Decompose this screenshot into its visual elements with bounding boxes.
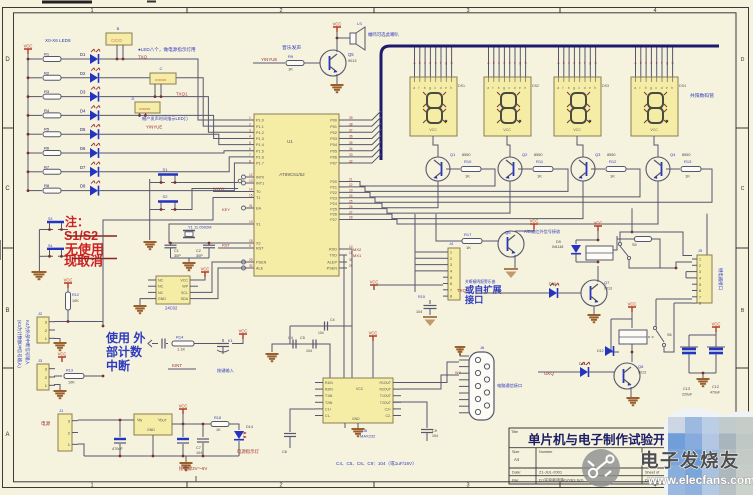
svg-text:h: h	[594, 86, 596, 90]
wire P0.0 bus entry	[347, 111, 381, 120]
svg-text:中断: 中断	[106, 358, 130, 373]
svg-text:C5: C5	[300, 336, 305, 340]
base resistor R11	[533, 167, 553, 172]
svg-text:1: 1	[90, 8, 93, 14]
svg-text:P1.6: P1.6	[256, 156, 264, 160]
svg-text:VCC: VCC	[712, 322, 721, 327]
resistor R1	[43, 57, 61, 62]
svg-text:D: D	[5, 57, 10, 63]
svg-text:电脑通信接口: 电脑通信接口	[497, 382, 522, 389]
svg-text:VCC: VCC	[370, 280, 379, 285]
svg-text:IN4148: IN4148	[552, 245, 563, 249]
svg-text:▭▭▭: ▭▭▭	[111, 38, 123, 43]
svg-text:D6: D6	[80, 146, 86, 151]
svg-text:6: 6	[699, 289, 701, 293]
capacitor K0 polarized	[161, 339, 163, 349]
buzzer box B2	[150, 73, 176, 84]
wire power bottom rail	[84, 455, 239, 457]
wire D11 to Q8 base	[590, 371, 615, 373]
wire R8 to D8	[61, 190, 90, 192]
svg-text:SCL: SCL	[181, 291, 188, 295]
7-seg display DS1	[410, 77, 457, 136]
wire J2 pin1	[54, 322, 103, 327]
svg-text:TXQ: TXQ	[138, 55, 148, 60]
svg-text:f: f	[440, 61, 441, 65]
wire J3 pin2 res	[54, 375, 62, 377]
vcc Q6	[530, 224, 538, 229]
svg-text:KINT: KINT	[172, 363, 182, 368]
svg-text:P02: P02	[330, 131, 337, 135]
svg-text:R4: R4	[44, 108, 50, 113]
svg-text:7: 7	[450, 288, 452, 292]
ground caps right	[697, 378, 710, 380]
capacitor C4	[292, 340, 294, 349]
wire R9 to Q5 base	[304, 62, 320, 64]
svg-text:19: 19	[249, 220, 253, 224]
wire Q7 emitter	[593, 306, 595, 314]
svg-text:TXD: TXD	[329, 254, 337, 258]
svg-text:Q7: Q7	[604, 280, 610, 285]
svg-text:R2IN: R2IN	[325, 388, 333, 392]
wire staircase to R17	[436, 214, 462, 241]
connector J2	[37, 317, 49, 343]
wire Q4 base to resistor	[666, 168, 680, 170]
header J4	[448, 248, 460, 300]
wire relay2 switch down	[664, 347, 665, 352]
svg-text:P1.2: P1.2	[256, 131, 264, 135]
svg-text:MX2: MX2	[353, 247, 362, 252]
svg-text:P1.3: P1.3	[256, 137, 264, 141]
wire P2.3 to Q4 base resistor	[347, 169, 712, 202]
ground under Q7	[588, 314, 601, 316]
svg-text:9013: 9013	[348, 59, 356, 63]
base resistor R12	[606, 167, 626, 172]
wire K0 to R14	[166, 343, 168, 345]
ground under Q6	[504, 268, 518, 270]
svg-text:c: c	[424, 61, 426, 65]
svg-text:RST: RST	[256, 247, 264, 251]
capacitor C9	[393, 402, 427, 428]
svg-text:P07: P07	[330, 162, 337, 166]
svg-text:b: b	[640, 61, 642, 65]
svg-text:R8: R8	[44, 183, 50, 188]
svg-text:S6: S6	[667, 333, 672, 337]
svg-text:R12: R12	[72, 293, 79, 297]
wire S2 to INT1	[183, 189, 238, 210]
svg-text:24C02: 24C02	[165, 306, 178, 311]
svg-text:WWW: WWW	[213, 186, 225, 191]
svg-text:VCC: VCC	[429, 128, 437, 132]
svg-text:U1: U1	[287, 139, 293, 144]
svg-text:D8: D8	[80, 184, 86, 189]
svg-text:R12: R12	[609, 159, 617, 164]
resistor R6	[43, 151, 61, 156]
transistor Q5	[320, 50, 346, 76]
vcc J3	[58, 357, 66, 362]
svg-text:30P: 30P	[174, 254, 181, 258]
svg-text:470uF: 470uF	[112, 447, 123, 451]
svg-text:Q4: Q4	[670, 152, 676, 157]
svg-text:13: 13	[249, 179, 253, 183]
svg-text:R17: R17	[464, 232, 472, 237]
svg-text:D9: D9	[556, 240, 561, 244]
wire B1 leads	[116, 45, 118, 59]
wire J1 pin3 down	[78, 444, 84, 456]
svg-text:3: 3	[466, 8, 469, 14]
svg-text:104: 104	[306, 349, 312, 353]
svg-text:(K3为计数脉冲信号输入): (K3为计数脉冲信号输入)	[16, 320, 23, 368]
LED D2	[90, 73, 98, 83]
wire stair to J5 pin1	[692, 214, 707, 259]
capacitor C6	[290, 409, 315, 432]
svg-text:e: e	[435, 61, 437, 65]
svg-text:D5: D5	[80, 127, 86, 132]
resistor R17	[462, 239, 482, 244]
svg-text:C1+: C1+	[325, 407, 331, 411]
svg-text:DS4: DS4	[679, 84, 686, 88]
wire Q1 base to resistor	[446, 168, 460, 170]
svg-text:A: A	[5, 432, 9, 438]
wire VCC to resistor R7	[28, 171, 42, 173]
svg-text:8550: 8550	[607, 153, 615, 157]
svg-text:8: 8	[249, 159, 251, 163]
svg-text:g: g	[429, 86, 431, 90]
svg-text:4: 4	[450, 270, 452, 274]
svg-text:YINYUE: YINYUE	[146, 125, 162, 130]
svg-text:Number: Number	[539, 450, 553, 454]
svg-text:g: g	[573, 86, 575, 90]
svg-text:1K: 1K	[216, 428, 221, 432]
svg-text:T2IN: T2IN	[325, 401, 333, 405]
wire R2 to D2	[61, 77, 90, 79]
svg-text:A4: A4	[514, 457, 520, 462]
svg-text:e: e	[656, 61, 658, 65]
svg-text:VCC: VCC	[356, 387, 364, 391]
svg-text:EA: EA	[256, 207, 262, 211]
svg-text:DS1: DS1	[458, 84, 465, 88]
transistor Q1	[426, 157, 450, 181]
ground under S3 S4	[32, 271, 47, 273]
wire D6 to MCU pin P1.5	[100, 151, 247, 153]
transistor Q4	[646, 157, 670, 181]
wire 7805 gnd stub	[152, 435, 154, 456]
wire caps to ground	[171, 257, 210, 259]
wire Q4 emitter return	[347, 181, 658, 224]
ground under crystal caps	[183, 262, 196, 264]
svg-text:c: c	[645, 61, 647, 65]
vcc MAX232	[369, 336, 377, 341]
relay2 dashes	[648, 336, 654, 338]
resistor R4	[43, 113, 61, 118]
svg-text:104: 104	[416, 310, 422, 314]
svg-text:File:: File:	[512, 479, 519, 483]
transistor Q3	[571, 157, 595, 181]
svg-text:RXD: RXD	[329, 248, 337, 252]
wire P0.5 bus entry	[347, 142, 381, 151]
svg-text:音乐发声: 音乐发声	[282, 44, 301, 51]
capacitor C4b	[324, 322, 326, 331]
svg-text:蟺鸣可选此喇叭: 蟺鸣可选此喇叭	[368, 31, 399, 38]
wire VCC rail vertical	[27, 54, 29, 191]
wire VCC to resistor R4	[28, 114, 42, 116]
LED D4	[90, 110, 98, 120]
wire P0.1 bus entry	[347, 117, 381, 126]
vcc for speaker	[333, 27, 341, 32]
wire R17 to Q6 base	[482, 240, 498, 242]
svg-text:T1OUT: T1OUT	[380, 394, 391, 398]
svg-text:DS3: DS3	[602, 84, 609, 88]
ground DB9	[460, 348, 469, 356]
wire SCL SDA up	[198, 262, 246, 292]
svg-text:e: e	[579, 61, 581, 65]
svg-text:R10: R10	[464, 159, 472, 164]
svg-text:NC: NC	[158, 291, 164, 295]
svg-text:VCC: VCC	[333, 22, 342, 27]
svg-text:使用 外: 使用 外	[105, 330, 145, 345]
svg-text:15: 15	[249, 194, 253, 198]
LED D1	[90, 54, 98, 64]
svg-text:b: b	[645, 86, 647, 90]
svg-text:9013: 9013	[604, 287, 612, 291]
svg-text:1K: 1K	[685, 174, 690, 179]
svg-text:30P: 30P	[196, 254, 203, 258]
svg-text:C4、C5、C6、C9：104（或1uF/16V）: C4、C5、C6、C9：104（或1uF/16V）	[336, 460, 417, 466]
svg-text:www.elecfans.com: www.elecfans.com	[647, 473, 753, 487]
svg-text:现取消: 现取消	[64, 254, 103, 269]
svg-text:D: D	[741, 57, 745, 63]
svg-text:3: 3	[466, 483, 469, 489]
svg-text:a: a	[557, 86, 559, 90]
svg-text:D4: D4	[80, 108, 86, 113]
svg-text:R13: R13	[66, 369, 73, 373]
wire J5 bottom drops	[655, 299, 657, 327]
ground under J3	[54, 390, 67, 392]
svg-text:e: e	[589, 86, 591, 90]
capacitor C13 electrolytic	[682, 348, 696, 351]
wire Q5 emitter	[336, 74, 338, 84]
svg-text:14: 14	[249, 188, 253, 192]
LED D11	[580, 367, 588, 377]
svg-text:d: d	[514, 86, 516, 90]
wire D3 to MCU pin P1.2	[100, 97, 247, 133]
svg-text:10K: 10K	[72, 299, 79, 303]
svg-text:C4: C4	[330, 318, 335, 322]
border row ticks	[3, 128, 750, 368]
svg-text:g: g	[589, 61, 591, 65]
svg-text:VCC: VCC	[201, 267, 210, 272]
vcc 24C02	[201, 272, 209, 277]
DB9 connector J6	[469, 352, 494, 420]
svg-text:1: 1	[450, 251, 452, 255]
resistor R9	[286, 61, 304, 66]
svg-text:P1.0: P1.0	[256, 119, 264, 123]
svg-text:9: 9	[249, 244, 251, 248]
wire DS1 to Q1 collector	[433, 136, 438, 157]
wire caps bottom rail	[689, 372, 716, 374]
resistor R3	[43, 94, 61, 99]
wire VCC to resistor R6	[28, 152, 42, 154]
svg-text:R7: R7	[44, 164, 50, 169]
wire Q7 collector	[597, 266, 599, 282]
watermark circle logo	[582, 449, 620, 487]
svg-text:C2+: C2+	[385, 407, 391, 411]
svg-text:R1: R1	[44, 52, 50, 57]
transistor Q6	[498, 231, 524, 257]
switch S4	[47, 248, 64, 250]
svg-text:h: h	[524, 86, 526, 90]
svg-text:b: b	[424, 86, 426, 90]
svg-text:S2: S2	[163, 194, 169, 199]
wire MAX gnd	[357, 423, 359, 428]
LED D7	[90, 167, 98, 177]
svg-text:2: 2	[699, 264, 701, 268]
svg-text:P20: P20	[330, 180, 337, 184]
display DS3 bus drop wires	[558, 48, 560, 78]
base resistor R10	[461, 167, 481, 172]
svg-text:TXQ: TXQ	[457, 288, 467, 293]
capacitor C7	[202, 424, 204, 437]
svg-text:h: h	[451, 61, 453, 65]
svg-text:d: d	[429, 61, 431, 65]
wire T1 left	[103, 198, 246, 327]
relay K2 body	[619, 330, 647, 344]
svg-text:30: 30	[249, 264, 253, 268]
svg-text:VCC: VCC	[530, 219, 539, 224]
svg-text:共阳数码管: 共阳数码管	[690, 92, 714, 99]
svg-text:C2-: C2-	[386, 414, 391, 418]
capacitor C12 electrolytic	[709, 348, 723, 351]
wire bundle to J4	[415, 251, 443, 253]
wire Q2 emitter return	[347, 181, 510, 213]
svg-text:Q2: Q2	[522, 152, 528, 157]
wire J1 to 7805	[78, 419, 134, 421]
svg-text:C9: C9	[432, 429, 437, 433]
ground under J2	[54, 342, 67, 344]
wire R3 to D3	[61, 96, 90, 98]
svg-text:单片机与电子制作试验开发: 单片机与电子制作试验开发	[528, 432, 679, 447]
wire relay1 to J5 a	[613, 236, 617, 250]
svg-text:R1IN: R1IN	[325, 381, 333, 385]
svg-text:470uF: 470uF	[710, 391, 721, 395]
svg-text:C2: C2	[196, 249, 201, 253]
svg-text:5: 5	[699, 283, 701, 287]
wire VCC to resistor R3	[28, 96, 42, 98]
transistor Q7	[581, 280, 607, 306]
svg-text:R2OUT: R2OUT	[380, 388, 392, 392]
svg-text:继电器接口: 继电器接口	[717, 268, 724, 290]
svg-text:VCC: VCC	[503, 128, 511, 132]
wire P0.7 bus entry	[347, 154, 381, 163]
svg-text:e: e	[445, 86, 447, 90]
connector J1	[58, 414, 72, 451]
svg-text:C6: C6	[282, 450, 287, 454]
svg-text:d: d	[650, 61, 652, 65]
svg-text:D3: D3	[80, 90, 86, 95]
wire B2 leads	[154, 84, 156, 97]
svg-text:T1: T1	[256, 196, 260, 200]
svg-text:a: a	[487, 86, 489, 90]
base resistor R13	[681, 167, 701, 172]
svg-text:1K: 1K	[466, 245, 471, 250]
svg-text:2: 2	[450, 257, 452, 261]
svg-text:D14: D14	[246, 425, 253, 429]
svg-text:Title: Title	[511, 430, 518, 434]
svg-text:电源: 电源	[41, 420, 51, 427]
svg-text:注：: 注：	[65, 214, 89, 229]
capacitor C1	[170, 243, 172, 245]
wire R18 to LED	[229, 424, 239, 430]
svg-text:8550: 8550	[462, 153, 470, 157]
svg-text:b: b	[493, 61, 495, 65]
svg-text:P22: P22	[330, 191, 337, 195]
svg-text:MX1: MX1	[353, 253, 362, 258]
svg-text:f: f	[493, 86, 494, 90]
svg-text:OUT: OUT	[160, 419, 167, 423]
wire P0.4 bus entry	[347, 136, 381, 145]
svg-text:T0: T0	[256, 190, 260, 194]
MCU left misc pin stubs	[246, 176, 254, 178]
svg-text:MAX232: MAX232	[360, 434, 376, 439]
svg-text:T1IN: T1IN	[325, 394, 333, 398]
svg-text:d: d	[503, 61, 505, 65]
wire Q5 collector to speaker	[337, 38, 350, 52]
svg-text:R14: R14	[176, 335, 184, 340]
wire Q3 base to resistor	[591, 168, 605, 170]
wire R1 to D1	[61, 58, 90, 60]
svg-text:T2OUT: T2OUT	[380, 401, 391, 405]
svg-text:D2: D2	[80, 71, 86, 76]
LED D14 power	[234, 431, 244, 439]
svg-text:f: f	[514, 61, 515, 65]
svg-text:f: f	[419, 86, 420, 90]
svg-text:GND: GND	[158, 297, 166, 301]
svg-text:KEY: KEY	[222, 207, 230, 212]
wire P0.3 bus entry	[347, 129, 381, 138]
svg-text:ALEP: ALEP	[327, 261, 337, 265]
svg-text:Q6: Q6	[505, 230, 511, 235]
wire J2 pin3 gnd	[54, 339, 60, 343]
wire VCC to resistor R8	[28, 190, 42, 192]
wire D1 to MCU pin P1.0	[100, 59, 247, 120]
svg-text:c: c	[498, 61, 500, 65]
wire title block stub	[195, 476, 197, 482]
svg-text:PSEN: PSEN	[327, 267, 338, 271]
svg-text:f: f	[584, 61, 585, 65]
svg-text:d: d	[440, 86, 442, 90]
svg-text:h: h	[671, 86, 673, 90]
wire DS2 to Q2 collector	[507, 136, 510, 157]
7-seg display DS2	[484, 77, 531, 136]
wire T0 left	[213, 191, 246, 193]
svg-text:g: g	[650, 86, 652, 90]
svg-text:d: d	[584, 86, 586, 90]
vcc R12	[64, 283, 72, 288]
border column ticks	[187, 8, 560, 488]
wire S1 to INT0	[183, 182, 238, 184]
wire J3 pin3 gnd	[54, 385, 60, 391]
resistor R8	[43, 188, 61, 193]
diode D9	[575, 240, 577, 244]
wire D7 to MCU pin P1.6	[100, 157, 247, 172]
capacitor C input electrolytic	[119, 420, 121, 437]
wire MAX to DB9 2	[401, 375, 459, 389]
svg-text:1: 1	[249, 116, 251, 120]
svg-text:D10: D10	[549, 282, 556, 286]
svg-text:c: c	[568, 61, 570, 65]
svg-text:Q1: Q1	[450, 152, 456, 157]
wire P2.2 to Q3 base resistor	[347, 169, 640, 197]
svg-text:h: h	[672, 61, 674, 65]
